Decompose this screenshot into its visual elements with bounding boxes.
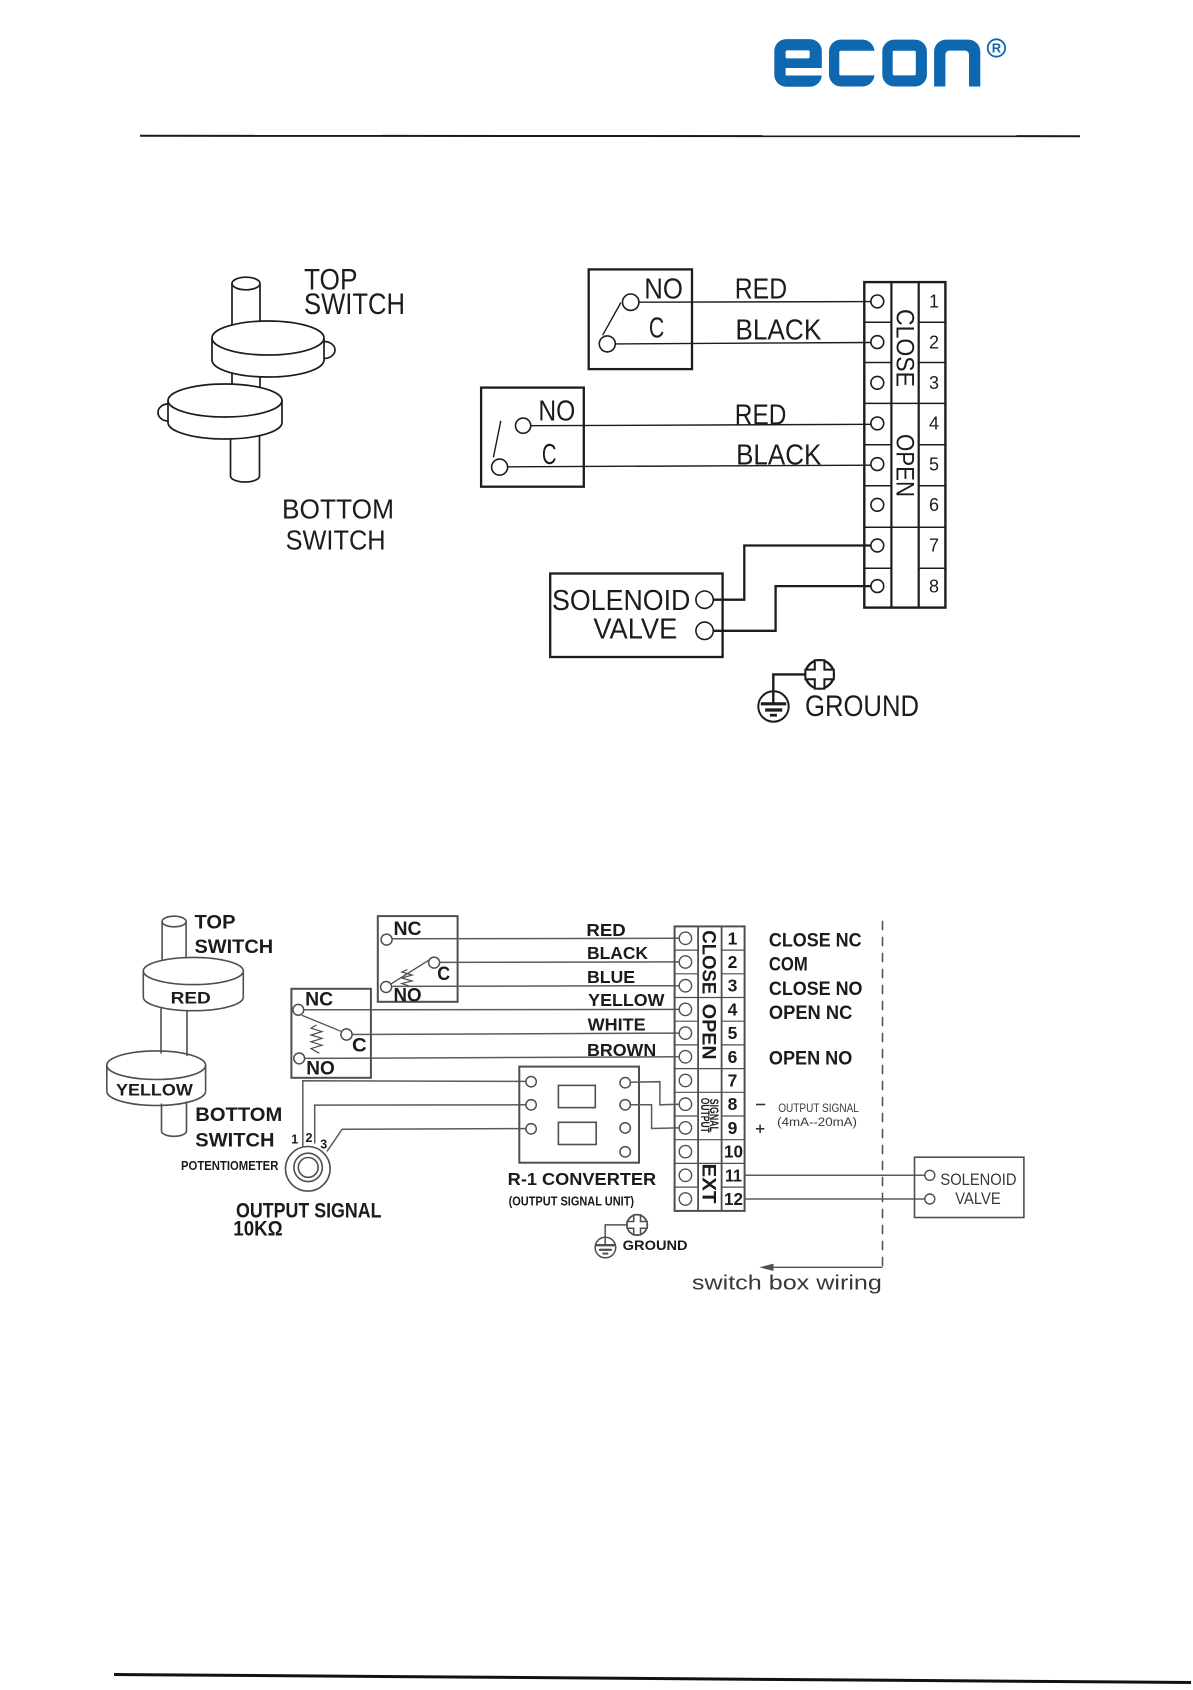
svg-text:10KΩ: 10KΩ bbox=[233, 1218, 282, 1241]
earth ground symbol (diagram 1) bbox=[758, 691, 788, 721]
svg-text:4: 4 bbox=[929, 414, 939, 434]
svg-text:BLUE: BLUE bbox=[587, 967, 635, 987]
footer rule bbox=[114, 1675, 1191, 1683]
earth ground symbol (diagram 2) bbox=[595, 1237, 616, 1258]
wire R-1 b1 to terminal 8 bbox=[630, 1082, 679, 1105]
label BOTTOM SWITCH (diagram 1) bbox=[282, 493, 394, 555]
svg-text:6: 6 bbox=[728, 1047, 738, 1067]
svg-text:CLOSE NC: CLOSE NC bbox=[769, 930, 862, 951]
shaft between cams (diagram 2) bbox=[161, 1009, 187, 1057]
wire S4 NO to terminal 6 bbox=[305, 1057, 679, 1059]
svg-text:BOTTOM: BOTTOM bbox=[282, 493, 394, 524]
top limit switch box S1 (diagram 1) bbox=[589, 269, 692, 369]
solenoid valve box (diagram 1) bbox=[550, 574, 722, 658]
svg-text:NO: NO bbox=[306, 1059, 335, 1080]
svg-text:1: 1 bbox=[929, 292, 939, 312]
econ logo bbox=[774, 39, 980, 87]
svg-text:C: C bbox=[352, 1036, 367, 1057]
svg-text:2: 2 bbox=[728, 952, 738, 972]
terminal block TB1 (diagram 1) bbox=[864, 282, 945, 607]
svg-text:3: 3 bbox=[929, 373, 939, 393]
svg-text:11: 11 bbox=[725, 1165, 742, 1185]
wire S3 NC to terminal 1 bbox=[392, 937, 679, 940]
svg-text:12: 12 bbox=[724, 1189, 743, 1209]
svg-text:OPEN NC: OPEN NC bbox=[769, 1003, 853, 1024]
top cam disc RED (diagram 2) bbox=[143, 957, 243, 1010]
svg-text:BLACK: BLACK bbox=[587, 943, 648, 963]
svg-text:RED: RED bbox=[171, 990, 211, 1008]
svg-text:4: 4 bbox=[728, 999, 738, 1019]
cam stack shaft top (diagram 1) bbox=[232, 277, 260, 325]
wire pot pin2 to R-1 terminal a2 bbox=[315, 1105, 526, 1144]
svg-text:SIGNAL: SIGNAL bbox=[707, 1099, 719, 1132]
bottom cam disc YELLOW (diagram 2) bbox=[107, 1051, 206, 1106]
svg-text:NC: NC bbox=[305, 990, 333, 1011]
wire solenoid pin1 to terminal 7 bbox=[713, 546, 871, 600]
wire pot pin1 to R-1 terminal a1 bbox=[303, 1081, 526, 1148]
output signal plus sign bbox=[756, 1125, 764, 1133]
wire solenoid pin2 to terminal 8 bbox=[713, 586, 871, 631]
svg-text:BLACK: BLACK bbox=[735, 315, 821, 347]
wire S2 C to terminal 5 bbox=[508, 465, 871, 467]
svg-text:OPEN NO: OPEN NO bbox=[769, 1049, 852, 1070]
terminal function labels (diagram 2) bbox=[769, 930, 863, 1069]
close switch box S3 (diagram 2) bbox=[378, 916, 458, 1006]
potentiometer symbol bbox=[286, 1147, 331, 1192]
ground screw symbol (diagram 1) bbox=[805, 660, 833, 688]
wire pot pin3 to R-1 terminal a3 bbox=[327, 1129, 526, 1152]
svg-text:SWITCH: SWITCH bbox=[304, 288, 405, 321]
svg-text:POTENTIOMETER: POTENTIOMETER bbox=[181, 1158, 279, 1173]
wire S2 NO to terminal 4 bbox=[531, 424, 871, 425]
svg-text:RED: RED bbox=[735, 274, 787, 306]
top cam disc (diagram 1) bbox=[212, 321, 335, 377]
svg-text:NC: NC bbox=[394, 919, 422, 940]
svg-text:GROUND: GROUND bbox=[805, 690, 919, 723]
svg-text:(4mA--20mA): (4mA--20mA) bbox=[777, 1117, 857, 1129]
cam stack shaft bottom (diagram 1) bbox=[231, 436, 260, 482]
svg-text:2: 2 bbox=[929, 332, 939, 352]
label TOP SWITCH (diagram 2) bbox=[195, 913, 274, 958]
output signal minus sign bbox=[756, 1104, 765, 1106]
bottom limit switch box S2 (diagram 1) bbox=[481, 388, 584, 487]
wire S3 NO to terminal 3 bbox=[392, 985, 679, 988]
svg-text:BOTTOM: BOTTOM bbox=[195, 1105, 282, 1126]
svg-text:2: 2 bbox=[306, 1131, 313, 1145]
bottom cam disc (diagram 1) bbox=[158, 384, 282, 439]
svg-text:7: 7 bbox=[929, 536, 939, 556]
svg-text:EXT: EXT bbox=[698, 1164, 719, 1204]
svg-text:GROUND: GROUND bbox=[623, 1237, 688, 1253]
ground screw symbol (diagram 2) bbox=[627, 1215, 647, 1235]
wire colour labels (diagram 2) bbox=[586, 920, 665, 1060]
header rule bbox=[140, 135, 1080, 137]
solenoid valve box (diagram 2) bbox=[915, 1157, 1024, 1217]
label OUTPUT SIGNAL 10K (diagram 2) bbox=[233, 1199, 381, 1240]
svg-text:1: 1 bbox=[291, 1133, 298, 1147]
cam stack shaft top (diagram 2) bbox=[162, 916, 186, 960]
wire ground link (diagram 1) bbox=[773, 674, 805, 703]
wire S4 NC to terminal 4 bbox=[304, 1008, 679, 1010]
label BOTTOM SWITCH (diagram 2) bbox=[195, 1105, 282, 1152]
wire ground link (diagram 2) bbox=[605, 1225, 627, 1245]
svg-text:(OUTPUT SIGNAL UNIT): (OUTPUT SIGNAL UNIT) bbox=[509, 1194, 634, 1208]
svg-text:SWITCH: SWITCH bbox=[195, 937, 274, 958]
svg-text:3: 3 bbox=[320, 1138, 327, 1152]
svg-text:8: 8 bbox=[929, 576, 939, 596]
terminal block TB2 (diagram 2) bbox=[675, 926, 745, 1211]
svg-text:VALVE: VALVE bbox=[593, 613, 677, 645]
label TOP SWITCH (diagram 1) bbox=[304, 264, 405, 321]
svg-text:5: 5 bbox=[929, 454, 939, 474]
svg-text:SOLENOID: SOLENOID bbox=[940, 1171, 1016, 1189]
svg-text:BLACK: BLACK bbox=[736, 439, 821, 471]
wire R-1 b2 to terminal 9 bbox=[630, 1105, 679, 1129]
wire terminal 12 to solenoid valve bbox=[745, 1198, 925, 1200]
wire S1 NO to terminal 1 bbox=[639, 301, 871, 304]
wire S4 C to terminal 5 bbox=[352, 1033, 679, 1034]
dashed separation line (switch box boundary) bbox=[882, 921, 884, 1272]
wire S3 C to terminal 2 bbox=[440, 961, 679, 964]
svg-text:WHITE: WHITE bbox=[588, 1015, 646, 1035]
svg-text:switch box wiring: switch box wiring bbox=[692, 1273, 882, 1295]
svg-text:YELLOW: YELLOW bbox=[588, 990, 665, 1010]
svg-text:COM: COM bbox=[769, 954, 808, 975]
svg-text:8: 8 bbox=[728, 1094, 738, 1114]
shaft between cams (diagram 1) bbox=[232, 374, 260, 389]
svg-text:NO: NO bbox=[644, 274, 683, 306]
svg-text:NO: NO bbox=[538, 396, 575, 428]
svg-text:R: R bbox=[992, 41, 1002, 56]
svg-text:7: 7 bbox=[728, 1071, 738, 1091]
svg-text:RED: RED bbox=[586, 920, 625, 940]
svg-text:YELLOW: YELLOW bbox=[116, 1082, 193, 1100]
svg-text:OUTPUT SIGNAL: OUTPUT SIGNAL bbox=[778, 1103, 859, 1115]
svg-text:SWITCH: SWITCH bbox=[195, 1130, 274, 1151]
svg-text:TOP: TOP bbox=[195, 913, 236, 934]
svg-text:10: 10 bbox=[724, 1142, 743, 1162]
svg-text:9: 9 bbox=[728, 1118, 738, 1138]
svg-text:CLOSE: CLOSE bbox=[698, 930, 719, 994]
svg-text:3: 3 bbox=[728, 976, 738, 996]
svg-text:C: C bbox=[649, 312, 664, 344]
svg-text:VALVE: VALVE bbox=[955, 1190, 1000, 1208]
svg-text:BROWN: BROWN bbox=[587, 1040, 656, 1060]
svg-text:SWITCH: SWITCH bbox=[286, 525, 386, 556]
svg-text:CLOSE: CLOSE bbox=[891, 309, 919, 387]
svg-text:R-1 CONVERTER: R-1 CONVERTER bbox=[508, 1169, 657, 1189]
cam stack shaft bottom (diagram 2) bbox=[162, 1102, 187, 1137]
svg-text:NO: NO bbox=[394, 985, 422, 1006]
wire terminal 11 to solenoid valve bbox=[745, 1174, 925, 1176]
R-1 converter box bbox=[519, 1067, 639, 1163]
svg-text:6: 6 bbox=[929, 495, 939, 515]
svg-text:CLOSE NO: CLOSE NO bbox=[769, 979, 863, 1000]
svg-text:RED: RED bbox=[735, 400, 787, 432]
svg-text:1: 1 bbox=[728, 928, 738, 948]
svg-text:OPEN: OPEN bbox=[698, 1004, 719, 1060]
open switch box S4 (diagram 2) bbox=[291, 989, 371, 1080]
svg-text:5: 5 bbox=[728, 1023, 738, 1043]
svg-text:C: C bbox=[437, 964, 450, 985]
svg-text:SOLENOID: SOLENOID bbox=[552, 585, 690, 617]
potentiometer pin labels 1 2 3 bbox=[291, 1131, 327, 1152]
wire S1 C to terminal 2 bbox=[615, 343, 871, 344]
arrow switch box wiring bbox=[760, 1264, 883, 1271]
svg-text:OPEN: OPEN bbox=[891, 434, 919, 497]
